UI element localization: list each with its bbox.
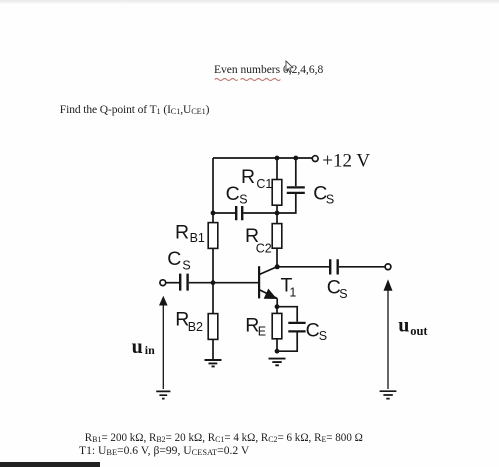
wire top supply rail <box>213 157 312 159</box>
bottom parameter line 1 <box>85 433 363 444</box>
resistor RB1 <box>208 223 218 249</box>
svg-text:in: in <box>145 343 155 357</box>
title text: Even numbers 0,2,4,6,8 <box>214 65 323 77</box>
svg-text:R: R <box>241 166 255 188</box>
capacitor CS output coupling plates <box>330 259 338 274</box>
node emitter bottom <box>275 349 280 354</box>
svg-text:C2: C2 <box>256 242 272 256</box>
top gray strip <box>0 0 499 4</box>
svg-text:u: u <box>398 315 409 337</box>
resistor RC1 <box>272 180 282 206</box>
wire RB2 top lead <box>212 283 214 314</box>
label CS (output) <box>327 277 348 301</box>
svg-text:C1: C1 <box>256 177 272 191</box>
label u_in <box>132 336 156 358</box>
wire collector to output cap <box>277 266 329 268</box>
ground (u_in) <box>156 391 170 398</box>
svg-text:B2: B2 <box>188 320 203 334</box>
capacitor CS coupling (between node A and node B) plates <box>236 206 242 220</box>
mouse cursor <box>286 61 293 72</box>
wire cap to node B <box>243 212 277 214</box>
node collector <box>275 264 280 269</box>
capacitor CS input coupling plates <box>180 274 187 291</box>
spellcheck wavy underline (Even) <box>215 79 238 81</box>
svg-text:C: C <box>306 319 320 341</box>
resistor RE <box>272 313 282 338</box>
ground (u_out) <box>380 391 397 398</box>
label T1 <box>281 275 297 300</box>
wire RB1 top lead <box>212 213 214 223</box>
wire RB1 bottom lead to base node <box>212 248 214 283</box>
wire left vertical from rail to node A <box>212 158 214 213</box>
terminal output <box>385 264 391 270</box>
wire RC1 bottom lead <box>276 205 278 213</box>
bottom parameter line 2 <box>79 445 249 457</box>
resistor RC2 <box>272 224 282 249</box>
svg-text:+12 V: +12 V <box>322 150 370 171</box>
arrow u_in <box>159 296 168 389</box>
capacitor CS plates (vertical branch) <box>287 187 305 193</box>
svg-text:C: C <box>167 248 181 270</box>
ground (below RB2) <box>205 360 222 366</box>
label RC1 <box>241 166 272 191</box>
heading: Find the Q-point <box>60 105 210 117</box>
label RB2 <box>175 309 203 334</box>
label u_out <box>398 315 428 338</box>
label CS (above coupling cap) <box>226 183 248 206</box>
wire RE top lead <box>276 307 278 314</box>
svg-text:C: C <box>226 183 240 205</box>
wire output cap to terminal <box>339 266 385 268</box>
wire RC2 top lead <box>276 213 278 224</box>
svg-text:out: out <box>410 324 428 338</box>
node A (left, RB1 top) <box>211 211 216 216</box>
capacitor CS emitter bypass: top lead <box>277 307 297 322</box>
terminal +12V <box>312 156 318 162</box>
capacitor CS bypass plates <box>288 323 305 332</box>
arrow u_out <box>384 279 393 389</box>
svg-text:S: S <box>182 259 190 273</box>
wire RC1 top lead <box>276 158 278 180</box>
capacitor CS bottom lead and return to node B <box>277 194 296 213</box>
transistor T1 emitter line <box>259 290 277 299</box>
wire cap to base <box>189 282 259 284</box>
wire RC2 bottom lead to collector node <box>276 248 278 267</box>
svg-text:1: 1 <box>289 285 296 299</box>
terminal input <box>160 280 166 286</box>
svg-text:E: E <box>258 324 266 338</box>
node emitter <box>275 304 280 309</box>
svg-text:u: u <box>132 336 143 358</box>
ground (below RE) <box>269 359 286 366</box>
label CS (input) <box>167 248 191 273</box>
svg-text:S: S <box>239 192 247 206</box>
svg-text:S: S <box>319 329 327 343</box>
capacitor CS parallel with RC1: top lead <box>295 158 297 186</box>
spellcheck wavy underline (numbers) <box>241 79 281 81</box>
svg-text:B1: B1 <box>190 231 205 245</box>
label RC2 <box>245 225 272 256</box>
label RE <box>245 314 266 338</box>
label CS (bypass) <box>306 319 327 342</box>
transistor T1 emitter arrow <box>264 289 277 299</box>
resistor RB2 <box>208 314 218 340</box>
svg-text:S: S <box>339 287 347 301</box>
node B (RC1 bottom / RC2 top) <box>275 211 280 216</box>
node base (RB1/RB2 junction) <box>211 280 216 285</box>
svg-text:R: R <box>175 221 189 243</box>
label CS (right of RC1) <box>313 183 334 207</box>
bottom black bar <box>0 462 100 467</box>
node junction top at CS branch <box>293 156 298 161</box>
transistor T1 base bar <box>258 266 260 298</box>
capacitor CS bypass bottom lead <box>277 333 297 352</box>
svg-text:S: S <box>326 192 334 206</box>
wire RE bottom lead <box>276 339 278 351</box>
wire emitter vertical <box>276 298 278 306</box>
label RB1 <box>175 221 205 245</box>
label +12 V <box>322 150 370 171</box>
transistor T1 collector line <box>259 267 277 275</box>
wire node A to coupling cap <box>213 212 235 214</box>
wire input terminal to cap <box>166 282 179 284</box>
node junction top at RC1 <box>275 156 280 161</box>
wire RB2 bottom lead <box>212 339 214 360</box>
